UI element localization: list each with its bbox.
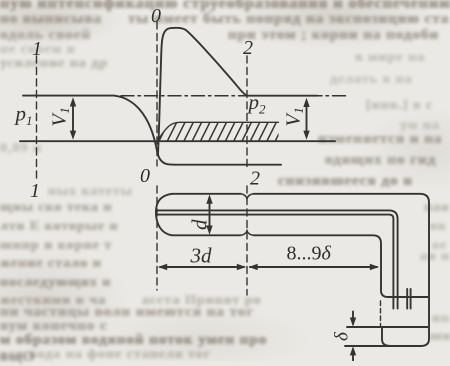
delta dimension (bottom) — [350, 312, 356, 362]
svg-text:1: 1 — [32, 38, 42, 60]
pressure curve p1 branch + dip + lower flat — [23, 96, 281, 165]
svg-text:8...9δ: 8...9δ — [287, 243, 332, 265]
section line 0-0 (dashed vertical) — [156, 22, 158, 166]
svg-text:V1: V1 — [283, 107, 307, 126]
svg-text:p2: p2 — [247, 90, 267, 117]
svg-text:δ: δ — [332, 331, 353, 341]
svg-text:0: 0 — [140, 165, 150, 187]
hidden continuation of stem wall (dashed) — [380, 301, 382, 326]
svg-text:2: 2 — [243, 37, 253, 59]
tube bottom wall with notch and stem left wall down to cap — [172, 234, 241, 236]
slab/slot top line — [347, 326, 428, 328]
centerline (dash-dot horizontal) — [121, 95, 346, 97]
svg-text:0: 0 — [151, 5, 161, 27]
lower boundary line — [20, 140, 335, 142]
inner total-pressure channel upper wall — [156, 210, 398, 308]
second take-off tube stubs — [407, 289, 410, 309]
V1 arrow left — [70, 97, 76, 140]
d dimension arrow — [206, 195, 212, 235]
8...9 delta dimension — [249, 264, 380, 270]
hatch top edge — [158, 122, 279, 141]
static hole notch (top wall) — [241, 194, 254, 199]
svg-text:V1: V1 — [49, 107, 73, 126]
static hole notch (bottom wall) — [241, 231, 254, 236]
section line 1-1 (dashed vertical) — [36, 56, 38, 178]
tube top wall continuation and outer right wall down to reservoir — [254, 194, 430, 346]
svg-text:3d: 3d — [190, 244, 213, 268]
nose (rounded tip) — [156, 194, 172, 236]
slot end step — [382, 327, 390, 346]
tube top wall with static-hole notch and right bend down to vessel bottom — [172, 193, 241, 195]
svg-text:d: d — [188, 219, 212, 230]
3d dimension — [158, 264, 246, 270]
V1 arrow right — [303, 98, 309, 140]
svg-text:1: 1 — [30, 180, 40, 202]
pressure spike + p2 branch — [158, 28, 318, 155]
faded bleed-through text background — [0, 0, 450, 13]
tube bottom wall continuation, stem left wall and bottom cap — [254, 235, 429, 297]
svg-text:2: 2 — [250, 168, 260, 190]
section line 2-2 (dashed vertical) — [246, 56, 248, 170]
inner total-pressure channel lower wall — [156, 215, 393, 309]
svg-text:p1: p1 — [14, 102, 33, 129]
